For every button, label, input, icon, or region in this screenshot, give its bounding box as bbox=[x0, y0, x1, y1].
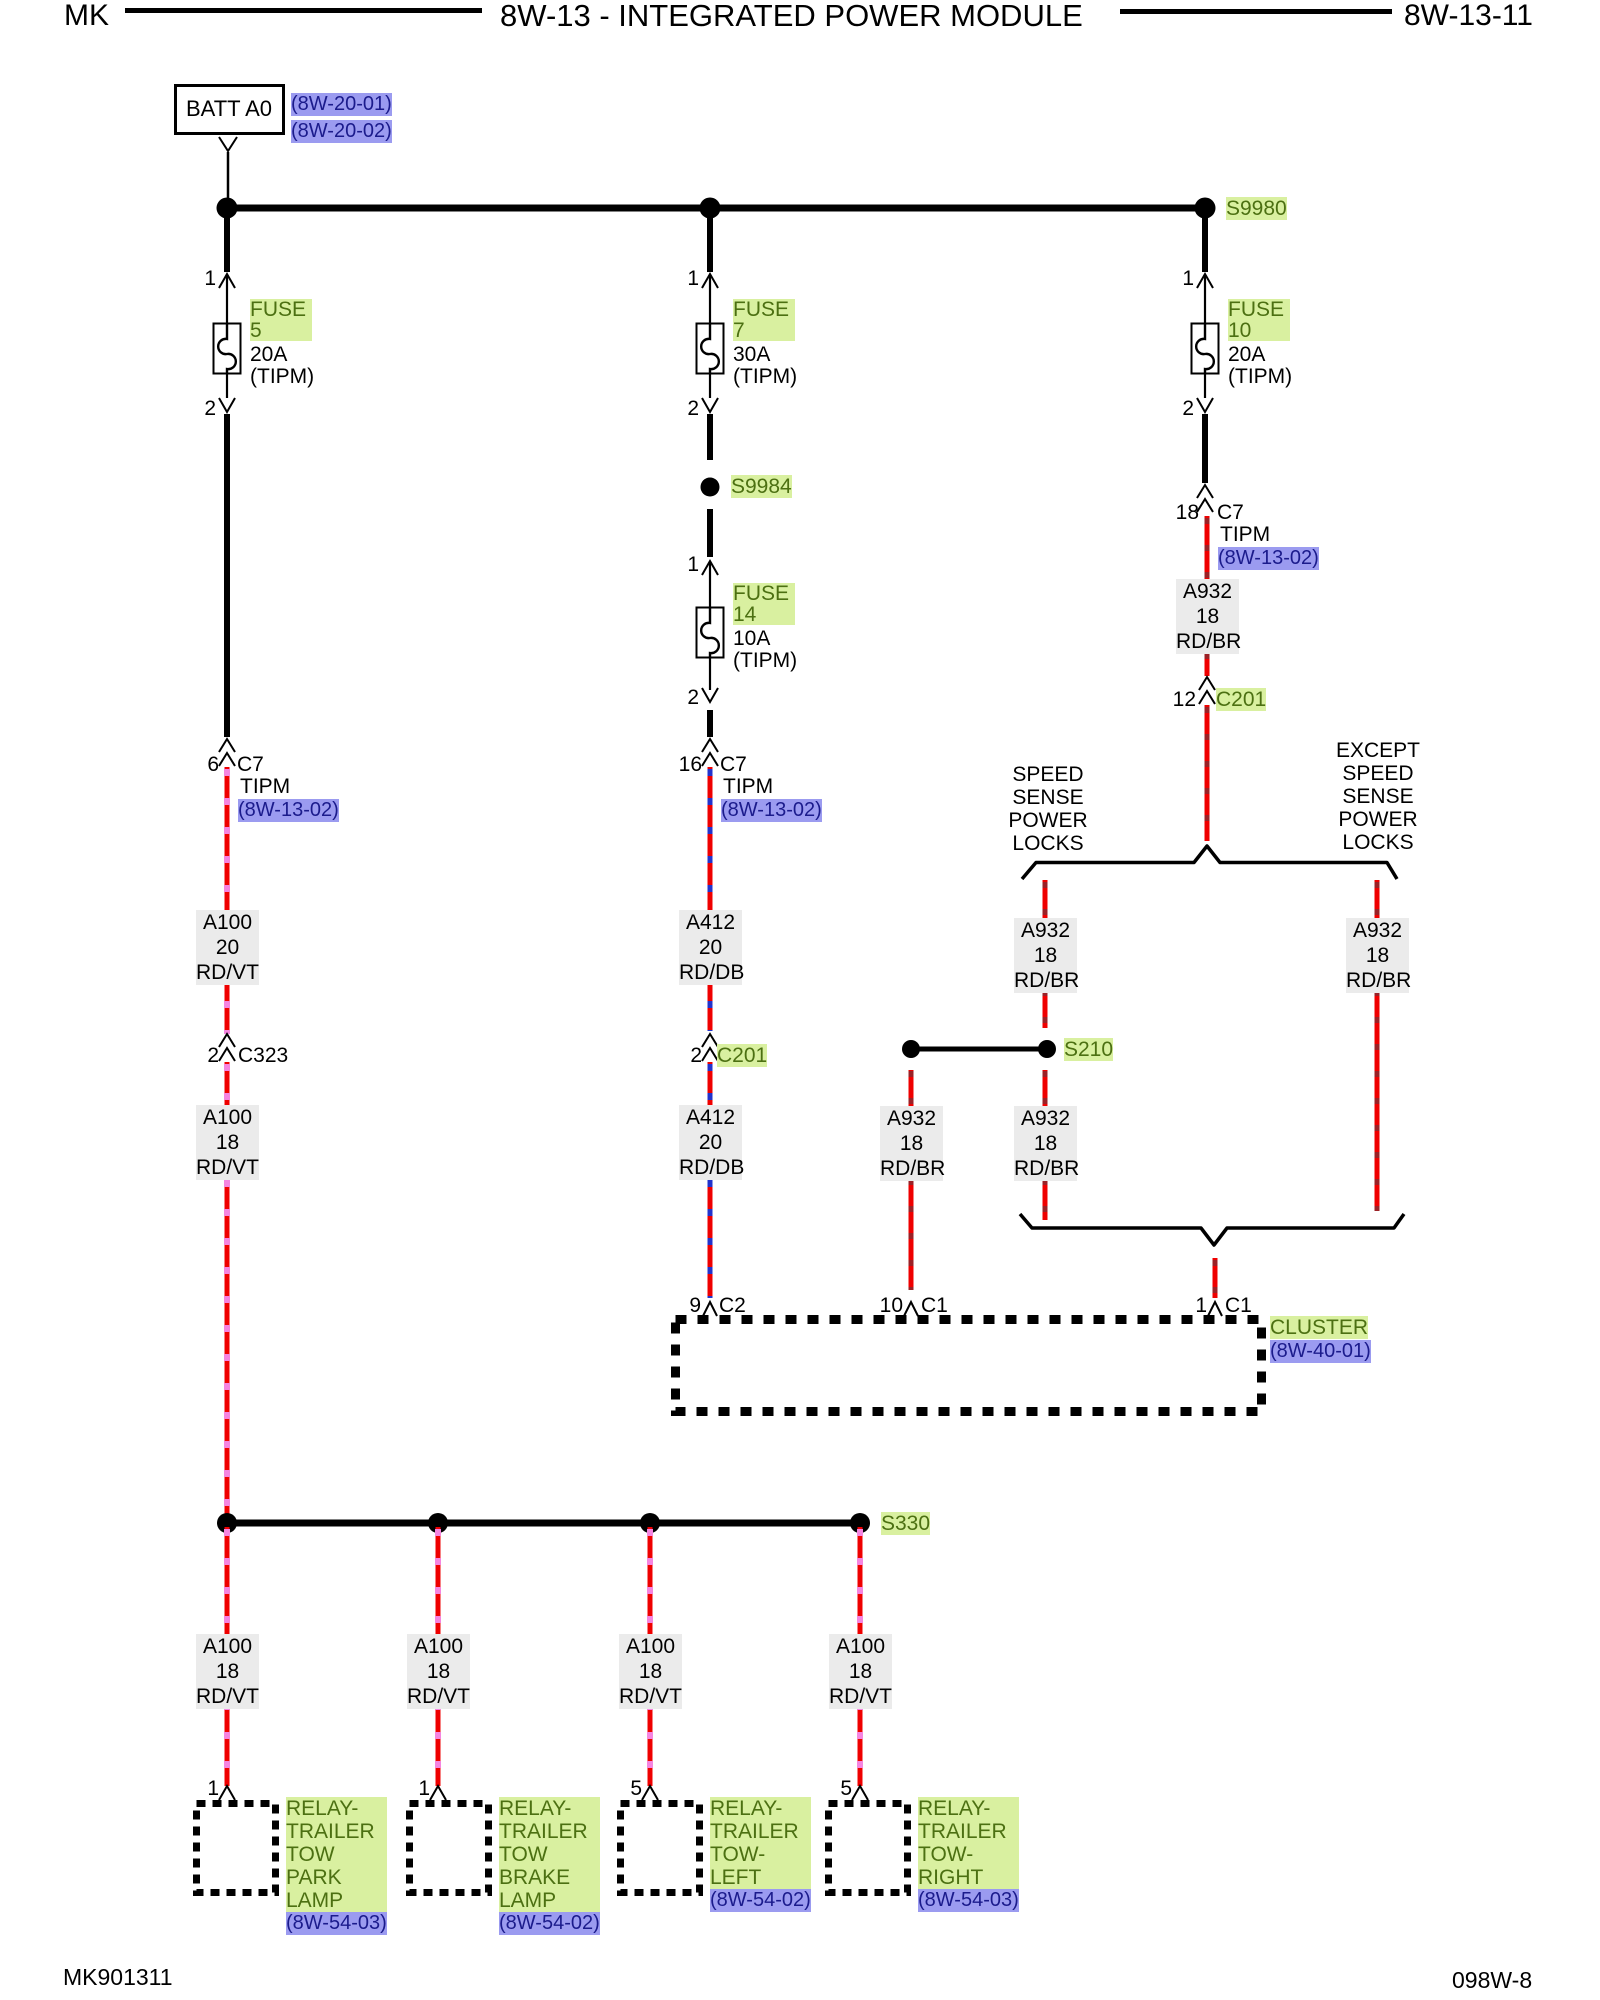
splice label S210 bbox=[1064, 1038, 1113, 1061]
wire A932 18 RD/BR to option brace bbox=[1205, 705, 1210, 841]
connector C201 cavity 12 labels bbox=[1166, 688, 1196, 711]
in-line connector C7 cavity 18 double chevron bbox=[1197, 485, 1213, 498]
wire A412 20 RD/DB upper segment bbox=[708, 767, 713, 1031]
wire into fuse10 bbox=[1204, 276, 1206, 323]
header MK bbox=[64, 0, 109, 32]
junction dot S330 branch 1 bbox=[217, 1513, 237, 1533]
splice label S9980 bbox=[1226, 197, 1287, 220]
cluster pin 1 C1 chevron bbox=[1208, 1302, 1222, 1316]
fuse5 location bbox=[250, 365, 314, 388]
C7 page reference middle bbox=[721, 799, 822, 822]
in-line connector C323 cavity 2 double chevron bbox=[219, 1034, 235, 1047]
wire label A932 18 RD/BR (S210 left) bbox=[880, 1106, 943, 1181]
fuse10 pin 2 bbox=[1164, 397, 1194, 420]
junction dot middle on S9980 bus bbox=[700, 198, 721, 219]
pin 1 chevron fuse10 bbox=[1197, 274, 1213, 288]
C7 page reference left bbox=[238, 799, 339, 822]
BATT A0 page reference 8W-20-01 bbox=[291, 93, 392, 116]
fuse7 rating bbox=[733, 343, 770, 366]
wire A932 18 RD/BR from S210 left leg to cluster C1 bbox=[909, 1070, 914, 1290]
fuse F14 element curve bbox=[701, 608, 719, 658]
splice label S9984 bbox=[731, 475, 792, 498]
wire label A412 20 RD/DB (lower) bbox=[679, 1105, 742, 1180]
wire A100 18 RD/VT to relay park lamp bbox=[225, 1527, 230, 1786]
pin 1 chevron fuse14 bbox=[702, 561, 718, 575]
header page number bbox=[1404, 0, 1533, 32]
fuse10 pin 1 bbox=[1164, 267, 1194, 290]
BATT A0 page reference 8W-20-02 bbox=[291, 120, 392, 143]
connector C201 cavity 2 labels bbox=[672, 1044, 702, 1067]
wire label A412 20 RD/DB bbox=[679, 910, 742, 985]
relay park lamp pin 1 chevron bbox=[219, 1786, 235, 1800]
pin 1 chevron fuse7 bbox=[702, 274, 718, 288]
splice S210 horizontal wire bbox=[911, 1047, 1047, 1052]
relay trailer tow brake lamp label bbox=[499, 1797, 600, 1912]
fuse F5 element curve bbox=[218, 324, 236, 374]
BATT A0 label bbox=[175, 97, 283, 120]
wire out of fuse7 bbox=[709, 374, 711, 398]
cluster pin 9 C2 labels bbox=[671, 1294, 701, 1317]
fuse F10 body bbox=[1192, 324, 1219, 374]
splice label S330 bbox=[881, 1512, 930, 1535]
in-line connector C201 cavity 2 double chevron bbox=[702, 1034, 718, 1047]
wire out of fuse14 bbox=[709, 658, 711, 690]
wire label A932 18 RD/BR (except speed sense) bbox=[1346, 918, 1409, 993]
relay trailer tow-left label bbox=[710, 1797, 811, 1889]
pin 2 chevron fuse5 bbox=[219, 398, 235, 412]
cluster pin 10 C1 labels bbox=[873, 1294, 903, 1317]
fuse7 location bbox=[733, 365, 797, 388]
fuse5 pin 2 bbox=[186, 397, 216, 420]
wire fuse7 pin2 to splice S9984 bbox=[707, 414, 713, 460]
relay trailer tow-right dashed box bbox=[829, 1804, 908, 1893]
wire A100 18 RD/VT to relay tow-right bbox=[858, 1527, 863, 1786]
wire A100 18 RD/VT to relay brake lamp bbox=[436, 1527, 441, 1786]
wire S9984 to fuse14 pin1 bbox=[707, 509, 713, 557]
fuse F14 body bbox=[697, 608, 724, 658]
relay tow-right page reference bbox=[918, 1889, 1019, 1912]
fuse10 location bbox=[1228, 365, 1292, 388]
relay trailer tow park lamp dashed box bbox=[197, 1804, 276, 1893]
fuse F5 body bbox=[214, 324, 241, 374]
fuse14 pin 1 bbox=[669, 553, 699, 576]
wire A100 18 RD/VT long segment to S330 bbox=[225, 1062, 230, 1523]
in-line connector C7 cavity 16 double chevron bbox=[702, 739, 718, 752]
relay trailer tow-right label bbox=[918, 1797, 1019, 1889]
option label except speed sense power locks bbox=[1328, 739, 1428, 854]
wire A932 18 RD/BR upper segment bbox=[1205, 516, 1210, 676]
relay park lamp page reference bbox=[286, 1912, 387, 1935]
wire label A932 18 RD/BR (below S210) bbox=[1014, 1106, 1077, 1181]
wire BATT A0 to splice bus bbox=[227, 152, 230, 204]
cluster pin 1 C1 labels bbox=[1177, 1294, 1207, 1317]
option label speed sense power locks bbox=[998, 763, 1098, 855]
relay trailer tow brake lamp dashed box bbox=[410, 1804, 489, 1893]
wire A100 20 RD/VT upper segment bbox=[225, 767, 230, 1034]
relay tow-left pin 5 chevron bbox=[642, 1786, 658, 1800]
wire fuse14 pin2 to connector C7 cavity 16 bbox=[707, 710, 713, 737]
fuse F7 element curve bbox=[701, 324, 719, 374]
pin 2 chevron fuse14 bbox=[702, 688, 718, 702]
splice S9984 dot bbox=[701, 478, 720, 497]
wire A932 18 RD/BR from S210 down to brace bbox=[1043, 1070, 1048, 1220]
relay trailer tow park lamp label bbox=[286, 1797, 387, 1912]
wire A932 18 RD/BR except-speed-sense branch bbox=[1375, 880, 1380, 1211]
footer right bbox=[1452, 1969, 1532, 1992]
fuse5 name label bbox=[250, 299, 312, 341]
wire fuse10 pin2 to connector C7 cavity 18 bbox=[1202, 414, 1208, 483]
wire into fuse14 bbox=[709, 563, 711, 607]
header rule left bbox=[125, 8, 482, 13]
wire bus S9980 bbox=[227, 205, 1205, 212]
junction dot S9980 bbox=[1195, 198, 1216, 219]
CLUSTER page reference bbox=[1270, 1340, 1371, 1363]
fuse14 rating bbox=[733, 627, 770, 650]
wire A100 18 RD/VT to relay tow-left bbox=[648, 1527, 653, 1786]
CLUSTER module dashed box bbox=[676, 1320, 1262, 1412]
cluster pin 9 C2 chevron bbox=[703, 1302, 717, 1316]
wire label A100 18 RD/VT branch 1 bbox=[196, 1634, 259, 1709]
connector C7 cavity 16 labels bbox=[672, 753, 702, 776]
connector C323 cavity 2 labels bbox=[189, 1044, 219, 1067]
pin 2 chevron fuse7 bbox=[702, 398, 718, 412]
fuse F10 element curve bbox=[1196, 324, 1214, 374]
wire A412 20 RD/DB lower segment to cluster C2 bbox=[708, 1062, 713, 1298]
fuse5 pin 1 bbox=[186, 267, 216, 290]
wire out of fuse10 bbox=[1204, 374, 1206, 398]
relay trailer tow-left dashed box bbox=[621, 1804, 700, 1893]
relay tow-left page reference bbox=[710, 1889, 811, 1912]
pin 1 chevron fuse5 bbox=[219, 274, 235, 288]
relay park lamp pin number bbox=[189, 1777, 219, 1800]
junction dot S210 left bbox=[902, 1040, 920, 1058]
wire label A100 18 RD/VT (left mid) bbox=[196, 1105, 259, 1180]
wire label A100 18 RD/VT branch 2 bbox=[407, 1634, 470, 1709]
wire into fuse7 bbox=[709, 276, 711, 323]
junction dot S330 branch 2 bbox=[428, 1513, 448, 1533]
wire label A100 18 RD/VT branch 4 bbox=[829, 1634, 892, 1709]
pin 2 chevron fuse10 bbox=[1197, 398, 1213, 412]
relay tow-right pin 5 chevron bbox=[852, 1786, 868, 1800]
wire into fuse5 bbox=[226, 276, 228, 323]
wire bus to fuse10 pin1 bbox=[1202, 208, 1208, 272]
wire fuse5 pin2 down to connector C7 cavity 6 bbox=[224, 414, 230, 737]
fuse7 pin 2 bbox=[669, 397, 699, 420]
fuse7 name label bbox=[733, 299, 795, 341]
junction dot S330 branch 3 bbox=[640, 1513, 660, 1533]
option merge brace (bottom) bbox=[1020, 1214, 1404, 1245]
relay tow-right pin number bbox=[822, 1777, 852, 1800]
junction dot S330 bbox=[850, 1513, 870, 1533]
relay brake lamp pin number bbox=[400, 1777, 430, 1800]
wire label A932 18 RD/BR (speed sense) bbox=[1014, 918, 1077, 993]
relay brake lamp pin 1 chevron bbox=[430, 1786, 446, 1800]
fuse5 rating bbox=[250, 343, 287, 366]
fuse7 pin 1 bbox=[669, 267, 699, 290]
connector C7 cavity 18 labels bbox=[1169, 501, 1199, 524]
fuse F7 body bbox=[697, 324, 724, 374]
fuse10 rating bbox=[1228, 343, 1265, 366]
fuse14 name label bbox=[733, 583, 795, 625]
CLUSTER module label bbox=[1270, 1316, 1368, 1339]
splice S330 bus wire bbox=[227, 1520, 860, 1527]
wire label A100 18 RD/VT branch 3 bbox=[619, 1634, 682, 1709]
C7 page reference right bbox=[1218, 547, 1319, 570]
wire merged branch to cluster C1 pin 1 bbox=[1213, 1258, 1218, 1298]
wire bus to fuse5 pin1 bbox=[224, 208, 230, 272]
header rule right bbox=[1120, 9, 1392, 14]
wire bus to fuse7 pin1 bbox=[707, 208, 713, 272]
battery B+ source box BATT A0 bbox=[176, 86, 284, 134]
option split brace (top) bbox=[1022, 846, 1397, 879]
connector C7 cavity 6 labels bbox=[189, 753, 219, 776]
relay brake lamp page reference bbox=[499, 1912, 600, 1935]
in-line connector C201 cavity 12 double chevron bbox=[1199, 677, 1215, 690]
fuse14 pin 2 bbox=[669, 686, 699, 709]
wire A932 18 RD/BR speed-sense branch upper bbox=[1043, 880, 1048, 1028]
footer left bbox=[63, 1966, 173, 1989]
junction dot left on S9980 bus bbox=[217, 198, 238, 219]
in-line connector C7 cavity 6 double chevron bbox=[219, 739, 235, 752]
fuse10 name label bbox=[1228, 299, 1290, 341]
wire out of fuse5 bbox=[226, 374, 228, 398]
wire label A100 20 RD/VT bbox=[196, 910, 259, 985]
wire label A932 18 RD/BR (upper right) bbox=[1176, 579, 1239, 654]
relay tow-left pin number bbox=[612, 1777, 642, 1800]
junction dot S210 bbox=[1038, 1040, 1056, 1058]
cluster pin 10 C1 chevron bbox=[904, 1302, 918, 1316]
fuse14 location bbox=[733, 649, 797, 672]
header title bbox=[500, 0, 1083, 32]
connector chevron below BATT A0 bbox=[219, 137, 237, 151]
